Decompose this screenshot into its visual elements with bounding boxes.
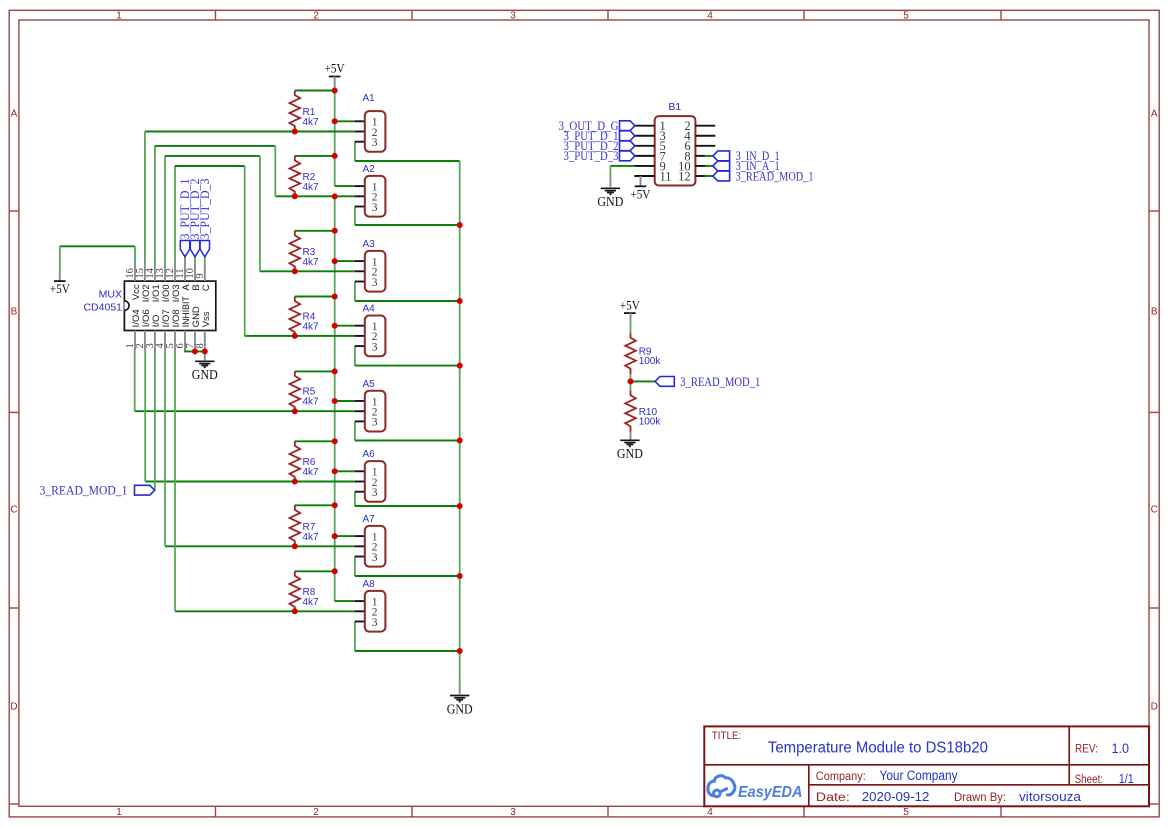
wire rail to A1 pin1 [335,120,355,122]
wire A2 pin2 row [275,195,355,197]
svg-text:5: 5 [903,807,909,818]
wire A5 pin3 elbow [355,421,460,440]
svg-text:3: 3 [372,617,378,629]
net flag 3_PUT_D_3 [620,151,635,161]
net flag 3_IN_D_1 [713,151,730,161]
svg-text:3_PUT_D_3: 3_PUT_D_3 [198,179,212,240]
junction R6 bottom [292,479,298,485]
B1 left pins 1,3,5,7,9,11 [634,126,654,176]
svg-text:A7: A7 [363,514,376,525]
A8 pin stubs [355,601,365,621]
svg-text:Company:: Company: [816,771,866,783]
junction R5 bottom [292,408,298,414]
svg-text:C: C [201,284,212,291]
wire I/O6 drop pin2 [144,350,146,481]
B1 right pin wires to flags [705,156,713,176]
svg-text:3_READ_MOD_1: 3_READ_MOD_1 [40,484,128,498]
op-amp U1 MUX CD4051 body [124,281,215,330]
wire rail to A4 pin1 [335,325,355,327]
svg-text:A: A [1151,109,1158,120]
power flag +5V left of MUX [50,281,71,296]
svg-text:+5V: +5V [630,186,651,201]
connector A8 [365,591,386,632]
junction R7 bottom [292,543,298,549]
svg-text:3: 3 [372,417,378,429]
wire A6 pin2 row [145,481,355,483]
MUX ground stub [204,351,206,360]
svg-text:3: 3 [372,487,378,499]
wire A8 pin3 elbow [355,622,460,652]
wire +5V drop vertical [59,246,61,271]
A1 pin numbers [372,117,378,149]
junction rail R1 top [332,88,338,94]
wire R8 top to rail [295,570,335,572]
svg-text:Date:: Date: [816,792,850,804]
resistor R1 [289,91,300,132]
svg-text:1: 1 [116,807,122,818]
A4 pin stubs [355,326,365,346]
junction rail A4 pin1 [332,323,338,329]
resistor R6 [289,441,300,481]
wire A3 pin3 elbow [355,282,460,302]
junction rail R8 top [332,568,338,574]
CD4051 top pins 16-9 [135,262,205,281]
wire +5V to pin16 horizontal [60,245,135,247]
svg-text:1/1: 1/1 [1119,771,1134,786]
connector A4 [365,316,386,357]
svg-text:B1: B1 [668,101,681,113]
svg-text:3: 3 [510,807,516,818]
net flag 3_PUT_D_2 [620,141,635,151]
svg-text:A3: A3 [363,239,376,250]
wire +5V rail lower segment [334,196,336,601]
svg-text:REV:: REV: [1075,742,1098,756]
svg-text:A6: A6 [363,449,376,460]
B1 ground stub [609,178,611,187]
wire R6 top to rail [295,440,335,442]
net flag 3_PUT_D_1 [180,241,189,257]
net flag 3_OUT_D_G [620,121,635,131]
wire pin16 vertical [134,246,136,262]
junction bus A6 row [457,503,463,509]
svg-text:GND: GND [447,701,473,716]
power flag +5V rail top [325,61,346,77]
svg-text:+5V: +5V [325,61,346,76]
wire A3 pin2 row [260,270,355,272]
resistor R3 [289,231,300,272]
svg-text:Drawn By:: Drawn By: [954,792,1006,804]
svg-text:CD4051: CD4051 [83,302,122,314]
svg-text:100k: 100k [639,356,662,367]
A1 pin stubs [355,121,365,141]
junction bus A7 row [457,573,463,579]
svg-text:3: 3 [372,202,378,214]
resistor R5 [289,371,300,411]
junction R3 bottom [292,268,298,274]
svg-text:MUX: MUX [99,289,122,301]
divider ground stub [630,432,632,440]
svg-text:B: B [1151,307,1158,318]
wire I/O4 drop pin1 [134,350,136,411]
svg-text:3: 3 [372,277,378,289]
wire pin11 to flag [184,257,186,262]
A7 pin stubs [355,536,365,556]
svg-text:3: 3 [372,137,378,149]
B1 right pins 2,4,6,8,10,12 [695,126,715,176]
net flag 3_READ_MOD_1 left [135,485,155,495]
connector A3 [365,251,386,292]
wire R5 top to rail [295,370,335,372]
svg-text:A2: A2 [363,164,376,175]
wire rail to A7 pin1 [335,535,355,537]
wire R7 top to rail [295,504,335,506]
wire I/O8 drop pin5 [174,350,176,611]
wire pin10 to flag [194,257,196,262]
wire B1 pin9 to GND [610,166,634,178]
junction rail R5 top [332,368,338,374]
B1 right pin numbers [678,119,691,183]
wire R3 top to rail [295,230,335,232]
svg-text:4k7: 4k7 [303,597,320,608]
connector A2 [365,176,386,217]
svg-text:4k7: 4k7 [303,532,320,543]
resistor R10 [625,391,636,432]
resistor R9 [625,333,636,374]
junction rail R6 top [332,438,338,444]
CD4051 bottom pins 1-8 [135,331,205,351]
wire A7 pin2 row [165,545,355,547]
A3 pin numbers [372,256,378,288]
wire rail to A6 pin1 [335,470,355,472]
title block frame [704,726,1149,806]
junction R8 bottom [292,608,298,614]
svg-text:3: 3 [510,10,516,21]
junction rail A6 pin1 [332,468,338,474]
power stub +5V left [59,272,61,282]
svg-text:1.0: 1.0 [1112,741,1130,756]
svg-text:3: 3 [372,552,378,564]
wire R9 to junction [630,374,632,381]
power flag +5V B1 [630,186,651,201]
svg-text:9: 9 [195,273,206,278]
svg-text:100k: 100k [639,416,662,427]
svg-text:A4: A4 [363,304,376,315]
svg-text:vitorsouza: vitorsouza [1019,789,1082,804]
junction MUX pin8 [202,348,208,354]
junction rail A3 pin1 [332,258,338,264]
svg-text:A: A [11,109,18,120]
A6 pin numbers [372,467,378,499]
svg-text:GND: GND [192,367,218,382]
CD4051 top pin numbers [125,267,206,278]
svg-text:A1: A1 [363,93,376,104]
svg-text:4k7: 4k7 [303,321,320,332]
resistor R4 [289,297,300,336]
junction R4 bottom [292,333,298,339]
svg-text:3_PUT_D_3: 3_PUT_D_3 [564,149,619,163]
wire A1 pin3 elbow [355,142,460,161]
CD4051 bottom pin numbers [125,343,206,349]
wire A4 pin2 row [245,335,355,337]
junction rail R2 top [332,153,338,159]
EasyEDA logo [708,776,803,801]
svg-text:4k7: 4k7 [303,467,320,478]
junction rail A2 row2 [332,193,338,199]
connector A7 [365,526,386,567]
wire pin9 to flag [204,257,206,262]
svg-text:4: 4 [707,10,713,21]
net flag 3_READ_MOD_1 divider [655,377,674,387]
svg-text:Temperature Module to DS18b20: Temperature Module to DS18b20 [768,740,988,757]
A2 pin numbers [372,181,378,213]
wire A6 pin3 elbow [355,492,460,506]
CD4051 top pin names [131,284,212,303]
wire I/O2 riser pin15 [144,132,146,263]
B1 +5V stub [640,176,642,186]
svg-text:+5V: +5V [50,281,71,296]
A3 pin stubs [355,261,365,281]
wire A8 pin2 row [175,610,355,612]
wire +5V rail upper segment [334,86,336,186]
resistor R7 [289,505,300,546]
junction bus A3 row [457,298,463,304]
net flag 3_PUT_D_2 [190,241,199,257]
junction rail R3 top [332,228,338,234]
svg-text:8: 8 [195,343,206,348]
junction bus A5 row [457,438,463,444]
junction bus A8 row [457,648,463,654]
svg-text:1: 1 [116,10,122,21]
svg-text:3_READ_MOD_1: 3_READ_MOD_1 [680,375,760,389]
wire R4 top to rail [295,296,335,298]
net flag 3_IN_A_1 [713,161,730,171]
svg-text:GND: GND [597,194,623,209]
svg-text:4k7: 4k7 [303,117,320,128]
ground symbol B1 [597,188,623,209]
A8 pin numbers [372,596,378,628]
B1 left pin numbers [660,119,672,183]
svg-text:D: D [1151,702,1158,713]
net flag 3_PUT_D_1 [620,131,635,141]
svg-text:4k7: 4k7 [303,182,320,193]
svg-text:12: 12 [678,169,691,183]
svg-text:4k7: 4k7 [303,257,320,268]
ground symbol bottom bus [447,696,473,717]
resistor R2 [289,156,300,196]
svg-text:3: 3 [372,341,378,353]
wire I/O3 route pin12 [175,166,245,336]
junction rail A1 pin1 [332,118,338,124]
svg-text:Your Company: Your Company [880,768,958,783]
wire rail to A5 pin1 [335,400,355,402]
svg-text:EasyEDA: EasyEDA [738,784,803,801]
net flag 3_PUT_D_3 [200,241,209,257]
wire I/O1 route pin14 [155,146,275,262]
junction rail R4 top [332,294,338,300]
wire right GND bus [459,161,461,685]
wire junction to flag [631,380,656,382]
wire rail to A2 pin1 [335,185,355,187]
junction R1 bottom [292,129,298,135]
A5 pin stubs [355,401,365,421]
A4 pin numbers [372,321,378,353]
wire I/O drop pin3 to flag [154,350,156,490]
junction rail R7 top [332,502,338,508]
svg-text:4: 4 [707,807,713,818]
connector A1 [365,111,386,152]
svg-text:D: D [10,702,17,713]
wire R1 top to rail [295,90,335,92]
wire junction to R10 [630,381,632,390]
svg-text:5: 5 [903,10,909,21]
junction rail A7 pin1 [332,533,338,539]
svg-text:TITLE:: TITLE: [712,730,742,742]
wire A4 pin3 elbow [355,346,460,366]
connector A5 [365,391,386,432]
junction R2 bottom [292,193,298,199]
wire A5 pin2 row [135,410,355,412]
svg-text:GND: GND [617,446,643,461]
bus ground stub [459,685,461,694]
svg-text:2: 2 [313,10,319,21]
A5 pin numbers [372,396,378,428]
wire R2 top to rail [295,155,335,157]
A7 pin numbers [372,531,378,563]
power flag +5V divider [620,297,641,313]
connector A6 [365,461,386,502]
connector B1 [655,116,696,185]
svg-text:C: C [10,505,17,516]
svg-text:+5V: +5V [620,297,641,312]
wire A1 pin2 row [145,131,355,133]
svg-text:Sheet:: Sheet: [1075,774,1104,786]
svg-text:A5: A5 [363,379,376,390]
svg-text:A8: A8 [363,579,376,590]
wire +5V to R9 [630,322,632,333]
ground symbol MUX [192,361,218,382]
wire rail to A3 pin1 [335,260,355,262]
svg-text:B: B [11,307,18,318]
junction bus A4 row [457,363,463,369]
junction divider mid [628,378,634,384]
wire A2 pin3 elbow [355,207,460,226]
svg-text:4k7: 4k7 [303,397,320,408]
svg-text:C: C [1151,505,1158,516]
svg-text:2020-09-12: 2020-09-12 [862,789,930,804]
CD4051 bottom pin names [131,296,212,327]
net flag 3_READ_MOD_1 [713,171,730,181]
svg-text:Vss: Vss [201,311,212,327]
A6 pin stubs [355,471,365,491]
svg-text:2: 2 [313,807,319,818]
junction rail A5 pin1 [332,398,338,404]
divider +5V stub [630,313,632,322]
wire MUX pin6 to GND elbow [184,348,205,351]
svg-text:11: 11 [660,169,672,183]
resistor R8 [289,571,300,611]
wire I/O7 drop pin4 [164,350,166,546]
wire A7 pin3 elbow [355,557,460,577]
A2 pin stubs [355,186,365,206]
wire rail to A8 pin1 [335,600,355,602]
power stub +5V rail [334,77,336,87]
junction MUX pin7 [192,348,198,354]
wire I/O0 route pin13 [165,156,260,271]
ground symbol divider [617,440,643,461]
svg-text:3_READ_MOD_1: 3_READ_MOD_1 [736,169,814,183]
junction bus A2 row [457,222,463,228]
